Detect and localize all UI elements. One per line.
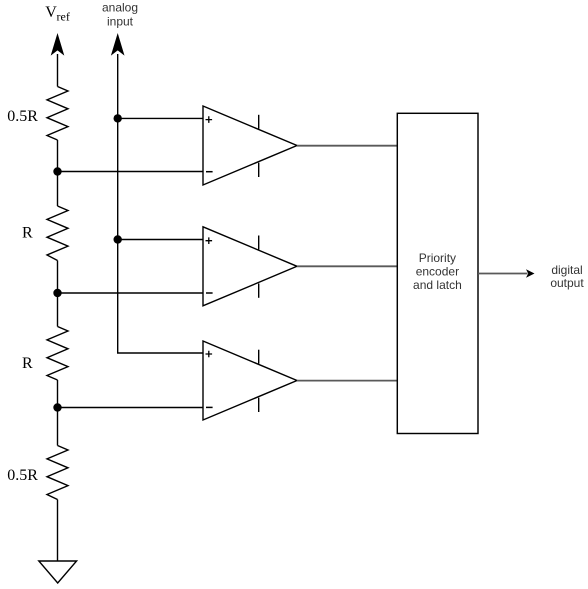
wire node E to comparator U2 plus: [118, 239, 203, 241]
node C junction dot: [53, 403, 61, 411]
svg-text:analog: analog: [102, 1, 138, 15]
resistor R4 0.5R (bottom): [47, 446, 68, 500]
svg-text:ref: ref: [57, 10, 70, 24]
wire node A to comparator U1 minus: [58, 171, 204, 173]
ground: [39, 561, 77, 583]
label digital output: [550, 263, 584, 290]
svg-text:encoder: encoder: [416, 264, 459, 278]
svg-text:and latch: and latch: [413, 278, 462, 292]
label analog input: [102, 1, 138, 29]
wire node C to resistor R4: [57, 408, 59, 446]
priority encoder and latch box: [397, 113, 478, 433]
svg-text:0.5R: 0.5R: [7, 108, 38, 125]
node E junction dot (analog to U2 plus): [114, 235, 122, 243]
resistor R3 R: [47, 327, 68, 381]
wire R2 to node B: [57, 261, 59, 294]
wire ladder R1 to node A: [57, 140, 59, 172]
wire node B to comparator U2 minus: [58, 292, 204, 294]
arrow Vref (up): [51, 33, 65, 87]
svg-text:R: R: [22, 225, 33, 242]
op-amp U2 comparator: [203, 227, 297, 306]
wire U3 output to encoder: [297, 380, 397, 382]
label Vref: [45, 4, 70, 24]
svg-text:R: R: [22, 355, 33, 372]
svg-text:0.5R: 0.5R: [7, 467, 38, 484]
svg-text:output: output: [550, 276, 584, 290]
wire R3 to node C: [57, 380, 59, 408]
svg-text:Priority: Priority: [419, 251, 456, 265]
wire encoder to digital output arrow: [478, 269, 535, 277]
wire R4 to ground: [57, 500, 59, 562]
node A junction dot: [53, 167, 61, 175]
node B junction dot: [53, 289, 61, 297]
node D junction dot (analog to U1 plus): [114, 114, 122, 122]
wire U1 output to encoder: [297, 145, 397, 147]
wire node B to resistor R3: [57, 293, 59, 327]
wire node C to comparator U3 minus: [58, 407, 204, 409]
arrow analog input (up): [111, 33, 125, 118]
wire U2 output to encoder: [297, 265, 397, 267]
op-amp U3 comparator: [203, 341, 297, 420]
wire node A to resistor R2: [57, 172, 59, 207]
resistor R2 R: [47, 206, 68, 261]
svg-text:input: input: [107, 14, 134, 28]
svg-text:V: V: [45, 4, 57, 21]
wire node D to comparator U1 plus: [118, 117, 203, 119]
svg-text:digital: digital: [551, 263, 582, 277]
op-amp U1 comparator: [203, 106, 297, 185]
resistor R1 0.5R (top): [47, 87, 68, 141]
wire analog input vertical: [118, 118, 203, 353]
